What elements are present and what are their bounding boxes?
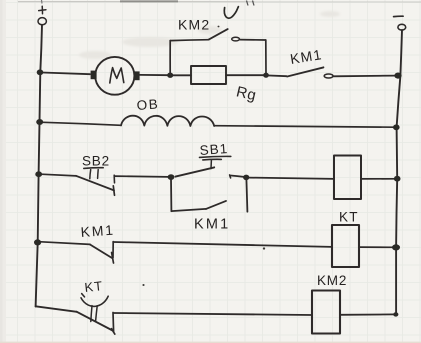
wire: node D to coil <box>249 178 334 179</box>
node: row2 / right rail junction <box>393 124 400 130</box>
wire: KT contact to KM2 coil <box>114 313 312 315</box>
label U <box>224 7 238 19</box>
motor M <box>91 57 140 95</box>
node: row3 / right rail junction <box>394 176 401 182</box>
node: row5 / right rail end <box>393 312 398 316</box>
wire: row2 left rail to winding <box>43 122 121 125</box>
wire: row3 left rail to SB2 <box>41 174 76 176</box>
svg-text:KM2: KM2 <box>317 273 347 288</box>
node: row4 / left rail junction <box>34 239 41 245</box>
svg-text:OB: OB <box>136 96 160 113</box>
node: row3 / left rail junction <box>35 171 42 177</box>
wire: KM2 coil to right rail <box>340 313 395 315</box>
plus terminal <box>38 6 46 25</box>
field winding OB <box>121 116 214 126</box>
resistor Rg <box>191 66 226 84</box>
node C: SB2 / SB1 / KM1-aux junction <box>168 174 175 180</box>
wire: KT coil to right rail <box>359 246 394 248</box>
svg-text:SB2: SB2 <box>82 154 110 169</box>
wire: node A up to KM2 contact branch <box>169 41 171 75</box>
svg-text:KM1: KM1 <box>194 217 230 233</box>
top paper edge <box>18 0 421 6</box>
wire: node A to resistor <box>173 74 191 76</box>
svg-text:KM1: KM1 <box>80 222 115 240</box>
svg-text:KM2: KM2 <box>178 17 210 33</box>
paper smudges <box>79 11 340 59</box>
node: row4 / right rail junction <box>392 244 400 250</box>
stray ink specks <box>142 26 265 286</box>
left supply rail (wire) <box>36 25 42 307</box>
node: row1 / right rail junction <box>394 73 401 79</box>
contact KM1 (row 4) <box>90 242 114 263</box>
contact KT (time-delay NO) <box>77 294 115 335</box>
bottom paper edge <box>0 341 421 343</box>
left brush <box>91 71 97 80</box>
wire: row5 left rail corner to KT contact <box>36 306 77 312</box>
node: row1 / left rail junction <box>37 69 44 75</box>
svg-text:SB1: SB1 <box>199 141 229 158</box>
node D: SB1 / KM1-aux / coil junction <box>243 175 249 181</box>
node B: Rg / KM2 branch junction <box>263 73 269 78</box>
wire: winding to right rail <box>214 126 394 128</box>
wire: motor to node A <box>140 74 169 76</box>
contact KM1 (row 1) <box>266 67 396 78</box>
relay coil (row 3) <box>334 156 361 200</box>
push button SB2 (NC) <box>76 168 169 196</box>
push button SB1 (NO) <box>176 156 245 178</box>
right brush <box>134 71 140 80</box>
wire: resistor to node B <box>226 74 264 76</box>
coil KT <box>332 225 359 267</box>
right supply rail (wire) <box>396 30 402 314</box>
contact KM2 (row 1 bypass contact) <box>170 29 265 41</box>
wire: KM1 contact to KT coil <box>113 242 332 247</box>
letter M <box>110 68 124 83</box>
minus terminal <box>394 16 406 30</box>
svg-text:KT: KT <box>84 278 104 295</box>
wire: row1 left rail to motor <box>42 73 90 75</box>
wire: row4 left rail to KM1 contact <box>41 242 90 245</box>
coil KM2 <box>312 291 340 334</box>
svg-text:KT: KT <box>339 210 359 225</box>
contact KM1 auxiliary (parallel with SB1) <box>171 178 247 212</box>
left paper edge shading <box>0 0 6 343</box>
wire: KM2 branch down to node B <box>265 40 267 75</box>
node: row2 / left rail junction <box>36 119 43 125</box>
wire: coil to right rail <box>361 178 395 180</box>
node A: motor / Rg / KM2 branch junction <box>167 73 173 78</box>
